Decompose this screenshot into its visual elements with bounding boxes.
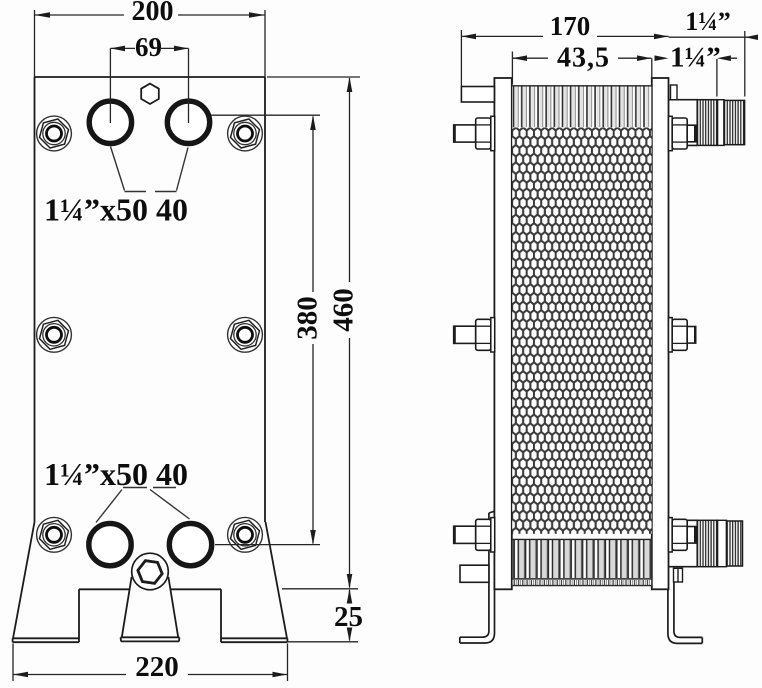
1 1/4 bottom : left arrow pointing right tip at 668.5; right arrow pointing left tip at 716.9 — [655, 55, 669, 61]
top small stub — [671, 85, 678, 100]
svg-text:40: 40 — [156, 456, 188, 492]
top hexagon — [141, 84, 159, 104]
69 — [110, 46, 125, 52]
svg-text:1¼”x50: 1¼”x50 — [44, 456, 148, 492]
svg-text:25: 25 — [334, 601, 363, 633]
1 1/4 bottom — [717, 58, 737, 96]
svg-text:69: 69 — [135, 32, 162, 62]
leader lines + ticks — [96, 147, 190, 523]
port circles — [89, 101, 212, 566]
1 1/4 top : outside arrow pointing left, tip at 744.8 — [745, 35, 758, 41]
1 1/4 top — [669, 31, 759, 97]
svg-text:380: 380 — [292, 296, 324, 340]
220 — [13, 672, 28, 678]
170 — [461, 34, 476, 40]
43,5 — [512, 52, 651, 85]
200 — [35, 10, 266, 77]
bolts (front view): 6x — [37, 116, 72, 151]
svg-text:170: 170 — [550, 11, 591, 41]
left foot — [13, 522, 79, 642]
25 — [347, 589, 353, 604]
frame plate outline — [35, 77, 266, 589]
svg-text:1¼”: 1¼” — [685, 7, 731, 36]
svg-text:1¼”x50: 1¼”x50 — [44, 192, 148, 228]
plate pack — [512, 85, 651, 127]
25 — [288, 590, 358, 642]
380 — [310, 115, 316, 130]
feet — [460, 511, 703, 643]
right foot — [221, 522, 287, 642]
200 — [35, 12, 51, 18]
220 — [13, 644, 288, 682]
460 — [347, 77, 353, 92]
svg-text:40: 40 — [156, 192, 188, 228]
170 — [461, 30, 668, 87]
bottom-middle circle + hexagon — [132, 553, 169, 590]
43,5 — [512, 55, 527, 61]
bottom small tab — [674, 568, 683, 582]
69 — [110, 48, 188, 123]
460 — [267, 77, 360, 589]
svg-text:43,5: 43,5 — [557, 42, 610, 73]
bottom pipe connection — [669, 520, 743, 566]
frame plates — [494, 78, 511, 589]
380 — [211, 115, 320, 544]
svg-text:200: 200 — [132, 0, 174, 27]
side bolts right x3 — [669, 116, 696, 150]
svg-text:460: 460 — [328, 288, 360, 332]
top pipe connection — [669, 100, 745, 146]
middle foot — [121, 577, 180, 642]
side bolts left x3 — [454, 116, 495, 150]
guide-bar tabs — [461, 87, 494, 103]
svg-text:220: 220 — [135, 651, 179, 683]
svg-text:1¼”: 1¼” — [670, 42, 721, 74]
